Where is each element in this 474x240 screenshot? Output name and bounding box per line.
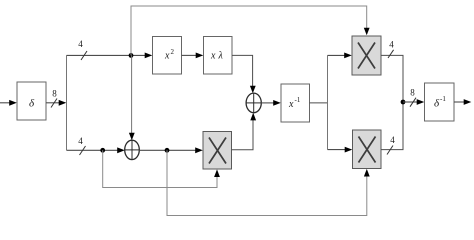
block gain x-lambda [204,37,233,75]
wire top feedback [131,6,370,55]
wire feedback 2 (node C to M3 bottom) [167,150,370,215]
node A junction dot top path [129,53,134,58]
svg-text:4: 4 [390,135,395,145]
svg-text:8: 8 [410,88,415,98]
multiplier M3 (bottom-right X box) [353,130,382,169]
svg-text:2: 2 [171,48,175,56]
svg-text:4: 4 [389,39,394,49]
wire delta output with bus slash 8 [46,89,66,108]
svg-text:λ: λ [218,51,224,62]
block delta inverse [425,83,455,121]
svg-text:x: x [164,51,170,62]
adder A1 [125,140,140,159]
wire bottom branch with bus slash 4 [67,136,125,155]
svg-text:4: 4 [78,39,83,49]
wire node A down to adder A1 [129,55,135,140]
wire right split to M3 [328,147,353,153]
wire right split vertical [327,55,329,149]
multiplier M2 (top-right X box) [352,36,381,75]
wire top branch with bus slash 4 [67,39,153,60]
multiplier M1 (bottom-left X box) [203,132,232,170]
wire x^-1 output to right split [310,102,328,104]
wire feedback 1 (node B to M1 bottom) [103,150,220,187]
wire adder A1 output [139,147,203,153]
wire x^2 to x-lambda [182,53,204,59]
svg-text:8: 8 [52,89,57,99]
block delta U1 [17,82,46,120]
svg-text:-1: -1 [440,95,446,103]
block squarer x^2 [153,37,182,75]
block inverse x^-1 [281,84,310,122]
wire merge to delta inverse with bus slash 8 [403,88,424,107]
svg-text:4: 4 [78,136,83,146]
wire x-lambda down to adder A2 [232,55,256,93]
svg-text:x: x [288,99,294,110]
svg-text:-1: -1 [295,96,301,104]
wire adder A2 to x^-1 [261,100,281,106]
wire M2 output with bus slash 4 [381,39,403,102]
wire input [0,100,17,106]
wire M3 output with bus slash 4 [381,102,403,155]
svg-text:δ: δ [29,98,35,110]
wire split vertical [66,55,68,150]
wire output [454,99,471,105]
node D merge junction dot [401,100,406,105]
node B junction dot 1 [100,148,105,153]
node C junction dot 2 [165,148,170,153]
wire right split to M2 [328,53,352,59]
svg-text:x: x [210,51,216,62]
wire M1 output up to adder A2 [232,113,257,150]
adder A2 [246,93,261,113]
